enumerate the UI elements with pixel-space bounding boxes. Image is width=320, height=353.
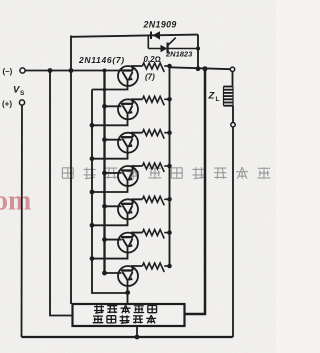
load ZL winding symbol (224, 86, 234, 88)
wire top loop upper line (71, 35, 198, 37)
junction negative line and base rail (103, 69, 107, 73)
resistor R1 0.2 ohm (142, 63, 171, 72)
wire positive input drop to bottom rail (21, 105, 24, 337)
wire top loop lower line (148, 48, 198, 50)
transistor Q2 2N1146 (90, 99, 143, 127)
wire right rail to amplifier (185, 69, 206, 314)
resistor R6 0.2 ohm (142, 230, 171, 239)
wire amplifier output to bottom rail (136, 326, 138, 337)
wire load top segment (232, 72, 234, 87)
wire main top line to load terminal (170, 67, 231, 69)
error sensing and control amplifier box (73, 304, 185, 326)
resistor R3 0.2 ohm (142, 130, 171, 139)
wire base bus rail (103, 71, 105, 274)
gray company watermark text (62, 168, 73, 178)
junction emitter link on base rail (103, 88, 107, 92)
resistor R2 0.2 ohm (142, 96, 171, 105)
resistor R4 0.2 ohm (142, 163, 171, 172)
wire first emitter link (92, 85, 128, 90)
wire emitter bus rail (92, 90, 128, 294)
wire left sense line to amplifier input (50, 71, 73, 316)
wire connector between top loop lines (147, 36, 149, 49)
amplifier box text line 1 (94, 305, 104, 313)
wire bottom rail (22, 336, 233, 338)
terminal (+) input (19, 100, 24, 105)
transistor Q5 2N1146 (90, 199, 143, 227)
wire top loop left vertical to amplifier (70, 36, 72, 305)
diode 2N1823 symbol (161, 45, 168, 52)
transistor Q7 2N1146 (102, 266, 142, 304)
junction loop lower line right (196, 46, 200, 50)
terminal load bottom (231, 123, 235, 127)
amplifier box text line 2 (93, 315, 104, 323)
resistor R7 0.2 ohm (142, 263, 171, 272)
wire load return to bottom rail (232, 127, 234, 337)
resistor R5 0.2 ohm (142, 196, 171, 205)
junction right rail top (203, 66, 208, 71)
wire negative input line (25, 70, 121, 72)
transistor Q6 2N1146 (90, 233, 143, 261)
transistor Q1 2N1146 (118, 66, 142, 86)
wire top loop right vertical (197, 35, 199, 69)
transistor Q4 2N1146 (90, 166, 143, 194)
wire resistor bus rail (169, 66, 171, 266)
terminal (-) input (20, 68, 25, 73)
transistor Q3 2N1146 (90, 133, 143, 161)
junction on negative line at x71 (69, 68, 74, 73)
junction loop right on main line (196, 66, 201, 71)
diode 2N1909 symbol (150, 32, 152, 40)
junction amplifier output on bottom rail (135, 335, 140, 340)
wire load bottom segment (232, 106, 234, 123)
junction on negative line at x50 (48, 68, 53, 73)
terminal load top (230, 67, 234, 71)
